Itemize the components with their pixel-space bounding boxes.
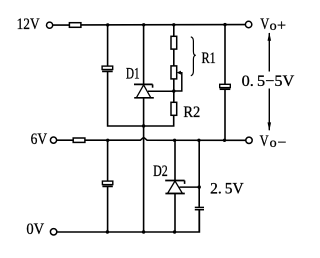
svg-text:V: V <box>260 133 269 150</box>
svg-text:R1: R1 <box>202 50 216 67</box>
wire D2 anode to cap column <box>180 186 200 188</box>
potentiometer wiper arrow <box>177 71 181 75</box>
node junction top D1 column <box>142 23 145 26</box>
svg-text:D2: D2 <box>153 163 168 180</box>
capacitor C2 (6V filter) <box>102 181 112 186</box>
wire D1 column (top rail to bottom rail) <box>143 25 145 232</box>
resistor R2 <box>171 102 177 115</box>
wire left lower column <box>107 140 109 232</box>
resistor R1 fixed section <box>171 36 177 49</box>
wire Vo- rail 6V to Vo- with hop over D1 column <box>57 137 246 140</box>
resistor (12V input, unlabeled) <box>69 23 81 28</box>
svg-text:o: o <box>270 136 277 151</box>
node junction Vo- rail left column <box>106 139 109 142</box>
wire R column top <box>173 25 175 103</box>
node R1 wiper / D1 anode / R2 top <box>172 89 175 92</box>
node junction bottom D1 column <box>142 230 145 233</box>
wire cap column (Vo- rail to bottom) <box>198 140 200 232</box>
terminal 0V <box>50 229 56 235</box>
node junction y126 D1 column <box>142 124 145 127</box>
resistor (6V input, unlabeled) <box>73 138 85 142</box>
svg-text:12V: 12V <box>17 16 40 33</box>
node junction bottom D2 column <box>173 230 176 233</box>
wire right column <box>224 25 226 141</box>
node junction top-left column <box>106 23 109 26</box>
terminal 6V <box>50 137 56 143</box>
node junction Vo- rail cap column <box>197 139 200 142</box>
svg-text:0. 5−5V: 0. 5−5V <box>242 73 295 90</box>
wire D2 column <box>174 140 176 232</box>
capacitor C1 (12V filter) <box>102 66 113 71</box>
node junction top R1 column <box>172 23 175 26</box>
zener diode D2 <box>165 181 185 194</box>
wire top rail 12V to Vo+ <box>53 24 246 27</box>
node junction top right column <box>223 23 226 26</box>
node junction D2 anode cap column <box>198 185 201 188</box>
svg-text:o: o <box>270 19 277 34</box>
svg-text:6V: 6V <box>31 131 48 148</box>
wire D1 anode to R1/R2 node <box>148 90 174 92</box>
node junction bottom left column <box>106 230 109 233</box>
capacitor C3 (2.5V reference) <box>195 207 204 209</box>
zener diode D1 <box>134 84 154 97</box>
svg-text:D1: D1 <box>126 66 140 83</box>
brace for R1 <box>191 37 196 76</box>
svg-text:+: + <box>277 18 286 35</box>
svg-text:2. 5V: 2. 5V <box>210 181 244 198</box>
terminal 12V <box>47 22 53 28</box>
node junction Vo- rail D2 column <box>173 139 176 142</box>
wire wiper to node <box>174 73 182 91</box>
svg-text:V: V <box>260 16 269 33</box>
capacitor C4 (output) <box>220 84 231 89</box>
wire bottom rail 0V <box>57 210 200 232</box>
svg-text:0V: 0V <box>26 221 44 238</box>
terminal Vo- <box>246 137 252 143</box>
wire left upper column <box>108 25 174 126</box>
potentiometer R1 adjustable section <box>171 66 177 79</box>
terminal Vo+ <box>245 21 251 27</box>
node junction Vo- rail right column <box>223 139 226 142</box>
svg-text:−: − <box>277 134 286 151</box>
svg-text:R2: R2 <box>183 104 200 121</box>
arrow output range 0.5-5V <box>268 32 272 130</box>
